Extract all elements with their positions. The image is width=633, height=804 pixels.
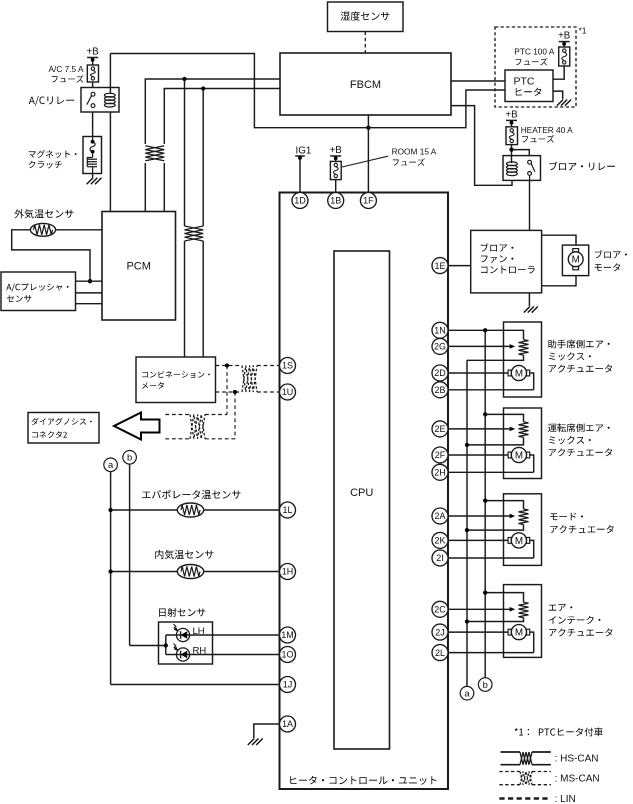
svg-text:b: b <box>483 679 488 690</box>
svg-text:2I: 2I <box>436 553 444 563</box>
svg-text:2B: 2B <box>434 385 445 395</box>
svg-text:1M: 1M <box>281 630 294 640</box>
svg-text:1S: 1S <box>282 361 293 371</box>
svg-text:2H: 2H <box>434 468 446 478</box>
svg-text:1O: 1O <box>281 650 293 660</box>
svg-text:+B: +B <box>86 47 99 58</box>
svg-text:2E: 2E <box>434 424 445 434</box>
svg-text:1D: 1D <box>294 196 306 206</box>
svg-text:a: a <box>108 459 114 470</box>
svg-text:HEATER 40 A: HEATER 40 A <box>521 125 573 135</box>
svg-text:1F: 1F <box>363 196 374 206</box>
svg-text:PCM: PCM <box>126 261 150 273</box>
svg-text:a: a <box>464 688 470 699</box>
svg-text:PTC: PTC <box>514 76 535 88</box>
svg-text:RH: RH <box>193 646 207 657</box>
svg-text:1A: 1A <box>282 719 293 729</box>
svg-text:2L: 2L <box>435 648 445 658</box>
svg-text:: MS-CAN: : MS-CAN <box>555 774 600 785</box>
svg-text:ROOM 15 A: ROOM 15 A <box>392 147 437 157</box>
svg-text:2J: 2J <box>435 627 445 637</box>
svg-text:+B: +B <box>330 145 343 156</box>
svg-text:CPU: CPU <box>350 487 373 499</box>
svg-text:1U: 1U <box>282 387 294 397</box>
svg-text:LH: LH <box>193 626 205 637</box>
svg-text:*1: *1 <box>579 26 587 36</box>
svg-text:M: M <box>515 536 523 547</box>
svg-text:1N: 1N <box>434 326 446 336</box>
svg-text:2G: 2G <box>434 342 446 352</box>
svg-text:M: M <box>515 369 523 380</box>
svg-text:2C: 2C <box>434 605 446 615</box>
svg-text:IG1: IG1 <box>296 145 312 156</box>
svg-text:FBCM: FBCM <box>350 79 381 91</box>
svg-text:1H: 1H <box>282 567 294 577</box>
svg-text:1E: 1E <box>434 261 445 271</box>
svg-text:2D: 2D <box>434 368 446 378</box>
svg-text:: HS-CAN: : HS-CAN <box>555 754 599 765</box>
svg-text:1L: 1L <box>282 505 292 515</box>
svg-text:1J: 1J <box>283 680 293 690</box>
svg-text:A/C 7.5 A: A/C 7.5 A <box>49 64 85 74</box>
svg-text:: LIN: : LIN <box>555 794 576 804</box>
svg-text:M: M <box>515 451 523 462</box>
svg-text:b: b <box>127 452 132 463</box>
svg-text:2K: 2K <box>434 536 445 546</box>
svg-text:PTC 100 A: PTC 100 A <box>514 47 555 57</box>
svg-text:+B: +B <box>505 110 518 121</box>
svg-text:M: M <box>572 255 580 266</box>
svg-text:M: M <box>515 628 523 639</box>
svg-text:2A: 2A <box>434 511 445 521</box>
svg-text:2F: 2F <box>435 450 446 460</box>
svg-text:+B: +B <box>558 31 571 42</box>
svg-text:1B: 1B <box>330 196 341 206</box>
